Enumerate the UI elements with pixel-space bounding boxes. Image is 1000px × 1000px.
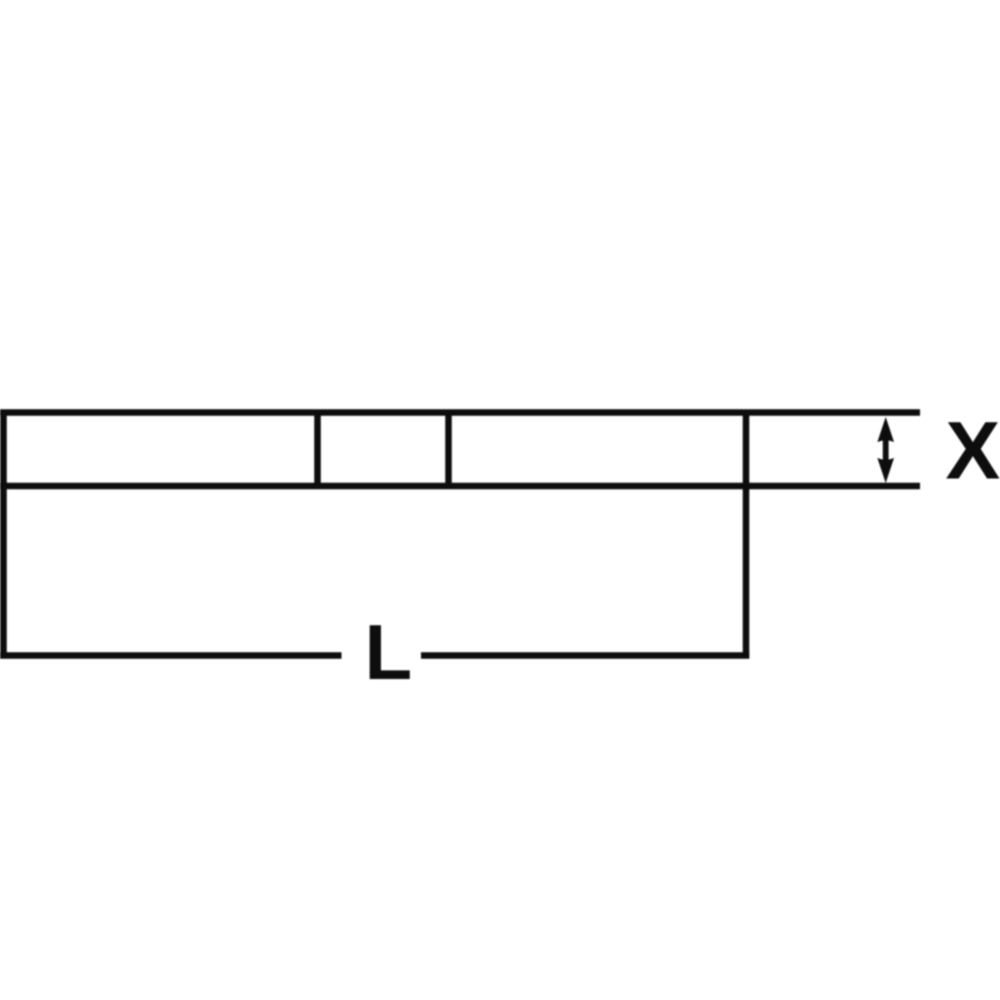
wire: left vertical edge [0,410,7,659]
wire: bottom edge line of thin strip (extends right past body) [0,483,920,490]
wire: bottom line right segment [421,652,749,659]
wire: top edge line of bar (extends right past body) [0,409,920,416]
svg-text:X: X [945,406,1000,497]
wire: bottom line left segment [0,652,342,659]
dimension arrow X (double-headed vertical) [877,417,894,483]
wire: divider line 1 in strip [314,410,321,490]
wire: divider line 2 in strip [445,410,452,490]
svg-text:L: L [364,608,412,696]
wire: right vertical edge [743,410,750,659]
